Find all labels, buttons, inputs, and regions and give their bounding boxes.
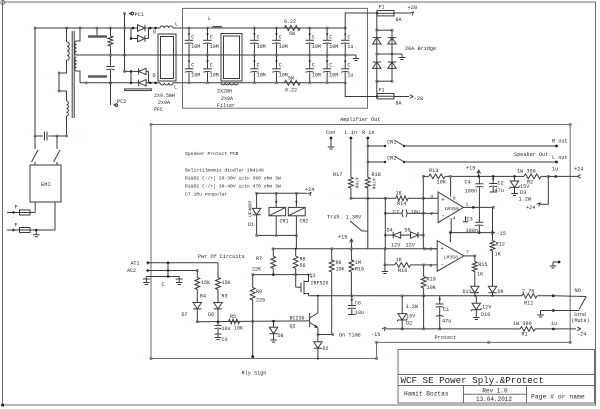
- svg-text:F: F: [15, 223, 18, 229]
- label PFC values: [154, 93, 175, 113]
- svg-text:R3: R3: [222, 294, 228, 300]
- diode D8: [269, 321, 283, 342]
- svg-text:D3: D3: [520, 190, 526, 196]
- resistor R1 1W 390: [513, 321, 576, 338]
- svg-text:C6: C6: [355, 301, 361, 307]
- wire -15 rail opamp: [449, 231, 492, 242]
- svg-text:470K: 470K: [371, 178, 377, 190]
- wire On Time node: [317, 333, 334, 336]
- terminal coil common with ground: [550, 261, 561, 268]
- svg-text:470K: 470K: [354, 177, 360, 189]
- terminal R out: [552, 139, 568, 148]
- transformer T1 primary winding: [67, 42, 69, 60]
- wire -15 / -24 rail: [386, 328, 514, 331]
- wire top-left horizontal: [34, 27, 68, 30]
- capacitor C6 10u: [348, 296, 364, 316]
- svg-text:Con: Con: [326, 130, 335, 136]
- svg-text:L in: L in: [345, 130, 357, 136]
- svg-text:EMI: EMI: [41, 182, 51, 188]
- terminal -15 opamp: [491, 231, 506, 237]
- ground line cap right: [176, 277, 183, 285]
- fuse F mains 2: [7, 202, 55, 233]
- inductor L filter bottom: [221, 83, 238, 85]
- relay coil CR1: [269, 193, 289, 235]
- capacitor C3 100n: [463, 217, 484, 235]
- label Con L in R in: [326, 130, 374, 136]
- diode PFC D lower pair bottom: [139, 80, 147, 86]
- svg-text:C3: C3: [467, 217, 473, 223]
- svg-text:C: C: [210, 35, 213, 41]
- svg-text:C: C: [162, 282, 165, 288]
- svg-text:CR2: CR2: [387, 156, 396, 162]
- svg-text:10u: 10u: [355, 310, 364, 316]
- svg-text:Pwr Of Circuits: Pwr Of Circuits: [198, 254, 245, 260]
- choke filter rectangle: [221, 34, 242, 82]
- ground line cap left: [143, 277, 150, 285]
- svg-text:10M: 10M: [312, 73, 321, 79]
- svg-text:R15: R15: [478, 262, 487, 268]
- terminal PC2: [114, 99, 126, 107]
- svg-text:10M: 10M: [257, 73, 266, 79]
- svg-text:100n: 100n: [465, 189, 477, 195]
- wire R17 R18 junction to input node: [350, 197, 387, 200]
- svg-text:CR1: CR1: [280, 219, 289, 225]
- svg-text:2x9A: 2x9A: [221, 96, 233, 102]
- wire to +24 right: [556, 175, 577, 177]
- wire L to filter box bottom: [173, 82, 183, 84]
- wire input network right vertical: [422, 176, 424, 248]
- diode PFC D upper-left pair second: [130, 28, 145, 42]
- relay contact CR2 top: [368, 156, 406, 164]
- resistor R6 10K: [329, 249, 344, 335]
- capacitor C7 10u nonpolar: [384, 210, 425, 218]
- svg-text:F1: F1: [379, 5, 385, 11]
- ground bridge center: [392, 54, 405, 60]
- svg-text:R4: R4: [200, 294, 206, 300]
- svg-text:2x0.5mH: 2x0.5mH: [154, 93, 175, 99]
- resistor R18 470K: [365, 172, 380, 198]
- relay contact blade mute: [579, 297, 586, 310]
- terminal +15 mid: [338, 235, 353, 249]
- svg-text:8: 8: [453, 195, 456, 201]
- wire +15 top rail: [450, 175, 511, 177]
- svg-text:PC1: PC1: [135, 12, 144, 18]
- fuse F mains 1: [7, 202, 35, 215]
- capacitor C 10M column 5 top: [305, 27, 320, 57]
- svg-text:R14: R14: [397, 201, 406, 207]
- capacitor C 10M column 4 bottom: [272, 55, 287, 84]
- svg-text:15V: 15V: [406, 314, 416, 320]
- filter enclosure box: [183, 8, 368, 108]
- capacitor C4 100n: [465, 176, 484, 222]
- svg-text:(Mute): (Mute): [572, 318, 590, 324]
- zener D5 12V: [400, 228, 425, 249]
- svg-text:5: 5: [429, 247, 432, 253]
- wire filter out top to fuse: [345, 12, 378, 28]
- resistor 0.22 5W bottom: [284, 76, 300, 94]
- svg-text:R1&R2 (-/+) 20-30V icin 390 oh: R1&R2 (-/+) 20-30V icin 390 ohm 3W: [185, 176, 281, 182]
- label Protect: [435, 335, 457, 341]
- label D lower pair: [153, 73, 156, 79]
- svg-text:-24: -24: [577, 332, 586, 338]
- svg-text:C: C: [312, 63, 315, 69]
- svg-text:12V: 12V: [391, 243, 401, 249]
- resistor R4 15K: [195, 271, 210, 303]
- page cell: [531, 394, 585, 401]
- label Pwr Of Circuits: [198, 254, 245, 260]
- terminal +24 mid: [526, 203, 540, 211]
- svg-text:D1: D1: [248, 222, 254, 228]
- svg-text:10M: 10M: [257, 44, 266, 50]
- wire +24 relay rail: [255, 192, 307, 195]
- svg-text:56: 56: [300, 263, 306, 269]
- svg-text:R10: R10: [355, 267, 364, 273]
- wire opamp1 output: [464, 206, 495, 209]
- bottom rail filter: [183, 82, 346, 84]
- author cell: [404, 391, 449, 398]
- svg-text:D7: D7: [181, 312, 187, 318]
- switch breaker pole 2: [54, 136, 61, 165]
- wire left vertical mains L: [34, 28, 36, 136]
- svg-text:C: C: [347, 63, 350, 69]
- svg-text:LM358: LM358: [444, 255, 459, 261]
- svg-text:10M: 10M: [329, 44, 338, 50]
- svg-text:C7 10u nonpolar: C7 10u nonpolar: [185, 192, 227, 198]
- wire relay rail to +15 rail: [295, 235, 297, 248]
- svg-text:Hamit Boztas: Hamit Boztas: [404, 391, 449, 398]
- terminal PC1: [123, 12, 144, 18]
- svg-text:220: 220: [256, 298, 265, 304]
- svg-text:R19: R19: [427, 277, 436, 283]
- wire opamp1 pin2: [423, 212, 438, 214]
- svg-text:PC2: PC2: [117, 99, 126, 105]
- svg-text:WCF SE Power Sply.&Protect: WCF SE Power Sply.&Protect: [401, 375, 544, 386]
- svg-text:R16: R16: [398, 268, 407, 274]
- bridge column right: [391, 29, 394, 83]
- svg-text:1u: 1u: [347, 44, 353, 50]
- svg-text:0.22: 0.22: [285, 87, 297, 93]
- svg-text:8A: 8A: [396, 17, 402, 23]
- bridge top link: [377, 29, 392, 31]
- capacitor C 10M column 1 bottom: [185, 55, 200, 84]
- svg-text:C: C: [257, 35, 260, 41]
- resistor R7 22K: [252, 249, 276, 275]
- wire opamp2 output: [464, 255, 476, 258]
- svg-text:D: D: [153, 30, 156, 36]
- capacitor C 10M column 3 top: [250, 27, 265, 57]
- capacitor C3 bottom with ground: [215, 334, 228, 343]
- svg-text:R13: R13: [429, 168, 438, 174]
- wire PC1 vertical: [123, 14, 126, 73]
- svg-text:C: C: [279, 35, 282, 41]
- op-amp U1A LM358 upper: [430, 192, 468, 223]
- svg-text:1u: 1u: [551, 321, 557, 327]
- resistor R15 1K: [472, 256, 487, 282]
- svg-text:R1: R1: [522, 332, 528, 338]
- svg-text:-15: -15: [371, 332, 380, 338]
- svg-text:D5: D5: [405, 228, 411, 234]
- svg-text:R7: R7: [256, 256, 262, 262]
- shield bar lower: [88, 75, 107, 78]
- label D upper pair: [153, 30, 156, 36]
- terminal AC2: [127, 268, 151, 274]
- svg-text:10M: 10M: [329, 73, 338, 79]
- rev cell: [482, 388, 508, 395]
- wire R7 R9 feed: [253, 273, 309, 276]
- svg-text:R6: R6: [336, 260, 342, 266]
- svg-text:R11: R11: [524, 301, 533, 307]
- wire +15 rail: [272, 248, 437, 251]
- svg-text:Q2: Q2: [290, 324, 296, 330]
- svg-text:UF4007: UF4007: [248, 200, 254, 217]
- label 20A Bridge: [405, 46, 436, 52]
- bar marker bottom: [125, 89, 152, 91]
- svg-text:10K: 10K: [336, 267, 345, 273]
- svg-text:AC1: AC1: [131, 260, 140, 266]
- svg-text:D4: D4: [387, 228, 393, 234]
- switch breaker pole 1: [32, 136, 39, 165]
- diode PFC D upper-left pair top: [132, 25, 145, 31]
- capacitor snubber: [106, 54, 115, 84]
- node mute: [541, 309, 590, 324]
- capacitor C 10M column 2 bottom: [203, 55, 218, 84]
- diode D1 UF4007: [248, 193, 261, 235]
- svg-text:D2: D2: [323, 346, 329, 352]
- svg-text:10K: 10K: [437, 180, 447, 186]
- label On Time: [339, 333, 361, 339]
- resistor R8 56: [293, 248, 305, 275]
- svg-text:10M: 10M: [312, 44, 321, 50]
- wire primary lower jog: [58, 60, 67, 101]
- svg-text:1.2W: 1.2W: [406, 304, 419, 310]
- diode D2 below Q2: [314, 335, 329, 360]
- node 1u label: [548, 167, 558, 178]
- svg-text:NO: NO: [575, 288, 581, 294]
- wire AC1: [146, 262, 218, 265]
- ground filter mid: [353, 55, 360, 61]
- svg-text:10u: 10u: [222, 326, 231, 332]
- node 1u bottom: [551, 321, 557, 330]
- wire lower winding to cap node: [66, 116, 68, 136]
- svg-text:+24: +24: [574, 167, 583, 173]
- wire secondary top tap: [77, 27, 82, 41]
- svg-text:C: C: [191, 63, 194, 69]
- svg-text:-20: -20: [414, 96, 424, 102]
- inductor L filter top: [208, 16, 222, 28]
- wire opamp1 pin4 down: [450, 218, 452, 233]
- capacitor X2 line filter: [34, 132, 68, 141]
- terminal +15 op-amp: [466, 166, 481, 178]
- wire relay bottom rail: [255, 234, 297, 237]
- resistor R13 10K: [422, 168, 452, 186]
- svg-text:C7: C7: [393, 210, 399, 216]
- wire base drive: [197, 320, 309, 323]
- svg-text:PFC: PFC: [154, 107, 163, 113]
- title text: [401, 375, 544, 386]
- transformer T1 secondary winding upper: [75, 41, 77, 55]
- wire opamp1 pin3: [423, 197, 438, 199]
- svg-text:C: C: [279, 63, 282, 69]
- svg-text:10M: 10M: [210, 44, 219, 50]
- svg-text:Amplifier Out: Amplifier Out: [340, 117, 380, 123]
- svg-text:C: C: [347, 35, 350, 41]
- svg-text:C: C: [329, 63, 332, 69]
- terminal AC1: [131, 260, 151, 266]
- diode bridge top-left: [373, 38, 381, 44]
- capacitor C 10M column 3 bottom: [250, 55, 265, 84]
- svg-text:D2: D2: [406, 321, 412, 327]
- resistor R19 10K: [421, 265, 437, 297]
- svg-text:Q1: Q1: [310, 273, 316, 279]
- svg-text:CR1: CR1: [387, 140, 396, 146]
- svg-text:1K: 1K: [495, 252, 502, 258]
- bottom rail left section: [80, 82, 139, 85]
- resistor R5 10K: [229, 314, 244, 332]
- resistor snubber vertical: [108, 28, 113, 55]
- terminal L in: [350, 137, 353, 140]
- wire R2 to +24 elbow: [539, 176, 548, 204]
- terminal Con with ground: [328, 137, 335, 149]
- wire PC1 to lower diodes: [125, 70, 132, 72]
- svg-text:47u: 47u: [442, 319, 451, 325]
- resistor R10 1M: [349, 249, 364, 296]
- transistor Q1 IRF520: [296, 273, 329, 296]
- wire protect rail: [309, 295, 523, 298]
- svg-text:10M: 10M: [191, 44, 200, 50]
- wire R16 left vertical: [384, 249, 386, 265]
- svg-text:6: 6: [429, 263, 432, 269]
- label filter values: [217, 89, 235, 110]
- svg-text:CR2: CR2: [300, 219, 309, 225]
- svg-text:R17: R17: [333, 172, 342, 178]
- resistor R2 1W 390: [511, 169, 550, 186]
- wire PFC top diode join: [146, 27, 160, 39]
- wire secondary bottom tap: [77, 71, 81, 83]
- capacitor C 10M column 6 bottom: [323, 55, 338, 84]
- svg-text:R2: R2: [527, 180, 533, 186]
- zener D2 15V 1.2W: [397, 295, 419, 331]
- svg-text:F1: F1: [379, 88, 385, 94]
- svg-text:D9: D9: [498, 289, 504, 295]
- svg-text:Speaker Out: Speaker Out: [514, 152, 548, 158]
- capacitor C2 47u: [489, 175, 504, 194]
- svg-text:L: L: [175, 22, 178, 28]
- svg-text:AC2: AC2: [127, 268, 136, 274]
- wire PFC bottom diode join: [146, 71, 160, 84]
- wire L to filter box top: [173, 27, 183, 29]
- capacitor C 10M column 6 top: [323, 27, 338, 57]
- svg-text:D10: D10: [481, 312, 490, 318]
- resistor R12 1K: [490, 207, 505, 281]
- svg-text:2x9A: 2x9A: [158, 100, 170, 106]
- svg-text:0.22: 0.22: [284, 19, 296, 25]
- fuse F1 positive: [377, 5, 402, 24]
- wire R18 node down to +15 rail: [367, 198, 369, 249]
- wire AC2: [146, 269, 199, 272]
- svg-text:+15: +15: [466, 166, 475, 172]
- diode bridge bottom-left: [373, 62, 381, 68]
- bridge column left: [376, 13, 379, 83]
- op-amp U1B LM358 lower: [429, 241, 469, 272]
- wire top rail transformer to PFC: [67, 27, 138, 30]
- resistor 0.22 5W top: [284, 19, 300, 37]
- label Trsh 1.38V with leader: [327, 215, 368, 232]
- svg-text:C: C: [210, 63, 213, 69]
- svg-text:Trsh. 1.38V: Trsh. 1.38V: [327, 215, 362, 221]
- wire L in vertical: [350, 138, 352, 177]
- svg-text:2x2mH: 2x2mH: [217, 89, 232, 95]
- svg-text:D8: D8: [278, 333, 284, 339]
- fuse F1 negative: [377, 88, 402, 107]
- svg-text:C: C: [312, 35, 315, 41]
- svg-text:Belirtilmemis diodlar 1N4148: Belirtilmemis diodlar 1N4148: [185, 168, 264, 174]
- svg-text:13.04.2012: 13.04.2012: [476, 396, 512, 403]
- diode D7: [181, 303, 201, 324]
- resistor R14 1K: [385, 191, 424, 208]
- svg-text:1M: 1M: [355, 260, 361, 266]
- ground R16: [382, 265, 389, 274]
- svg-text:R12: R12: [496, 242, 505, 248]
- diode bridge bottom-right: [388, 62, 396, 68]
- inductor PFC winding lower: [67, 101, 69, 116]
- label Amplifier Out: [340, 117, 380, 123]
- capacitor C 1u column 7 top: [341, 27, 353, 57]
- transistor Q2 BC239: [290, 295, 319, 335]
- svg-text:1: 1: [466, 202, 469, 208]
- svg-text:10M: 10M: [279, 44, 288, 50]
- svg-text:+: +: [441, 196, 445, 203]
- svg-text:7: 7: [466, 249, 469, 255]
- diode bridge top-right: [388, 38, 396, 44]
- terminal +24 right: [574, 167, 583, 179]
- top rail filter: [183, 27, 346, 29]
- svg-text:+24: +24: [526, 205, 535, 211]
- svg-text:4: 4: [453, 216, 456, 222]
- svg-text:L: L: [208, 16, 211, 22]
- svg-text:IRF520: IRF520: [311, 281, 329, 287]
- svg-text:Rev 1.0: Rev 1.0: [482, 388, 508, 395]
- wire R in vertical: [367, 138, 370, 177]
- wire fuse to +20: [394, 12, 411, 14]
- svg-text:+20: +20: [408, 5, 418, 11]
- capacitor C 1u column 7 bottom: [341, 55, 353, 84]
- resistor R17 470K: [333, 172, 360, 198]
- svg-text:C3: C3: [222, 337, 228, 343]
- wire PC2 drop: [110, 83, 112, 105]
- capacitor C 10M column 4 top: [272, 27, 287, 57]
- svg-text:8A: 8A: [396, 101, 402, 107]
- diode D9: [488, 282, 503, 296]
- svg-text:1W 390: 1W 390: [513, 321, 532, 327]
- EMI filter box: [30, 165, 61, 202]
- bridge mid link: [377, 53, 392, 55]
- svg-text:C: C: [257, 63, 260, 69]
- wire primary top vertical: [66, 28, 68, 42]
- svg-text:Page # or name: Page # or name: [531, 394, 585, 401]
- svg-text:Filter: Filter: [217, 103, 235, 109]
- capacitor C line pair: [146, 263, 179, 288]
- terminal +20: [408, 5, 418, 15]
- svg-text:10M: 10M: [279, 73, 288, 79]
- svg-text:R9: R9: [256, 289, 262, 295]
- svg-text:LM358: LM358: [445, 206, 460, 212]
- svg-text:5W: 5W: [289, 31, 295, 37]
- wire CR2 to L out: [404, 161, 556, 163]
- svg-text:D: D: [153, 73, 156, 79]
- wire fuse to -20: [394, 96, 409, 98]
- wire Rly Sign drop: [251, 321, 254, 358]
- node NO: [552, 288, 586, 297]
